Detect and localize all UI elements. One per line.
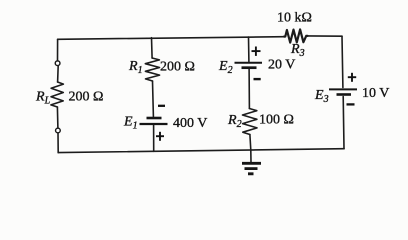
svg-text:100 Ω: 100 Ω bbox=[259, 113, 294, 128]
svg-text:10 V: 10 V bbox=[362, 86, 389, 101]
svg-text:R2: R2 bbox=[227, 113, 242, 130]
svg-text:R1: R1 bbox=[128, 59, 143, 76]
svg-text:400 V: 400 V bbox=[173, 116, 207, 131]
svg-text:E1: E1 bbox=[123, 115, 138, 132]
svg-text:200 Ω: 200 Ω bbox=[69, 90, 104, 105]
svg-text:RL: RL bbox=[35, 90, 51, 107]
svg-text:200 Ω: 200 Ω bbox=[160, 60, 195, 75]
svg-text:E3: E3 bbox=[314, 88, 329, 105]
svg-text:10 kΩ: 10 kΩ bbox=[277, 11, 312, 26]
svg-text:R3: R3 bbox=[290, 42, 305, 59]
svg-text:20 V: 20 V bbox=[268, 58, 295, 73]
svg-text:E2: E2 bbox=[218, 59, 233, 76]
